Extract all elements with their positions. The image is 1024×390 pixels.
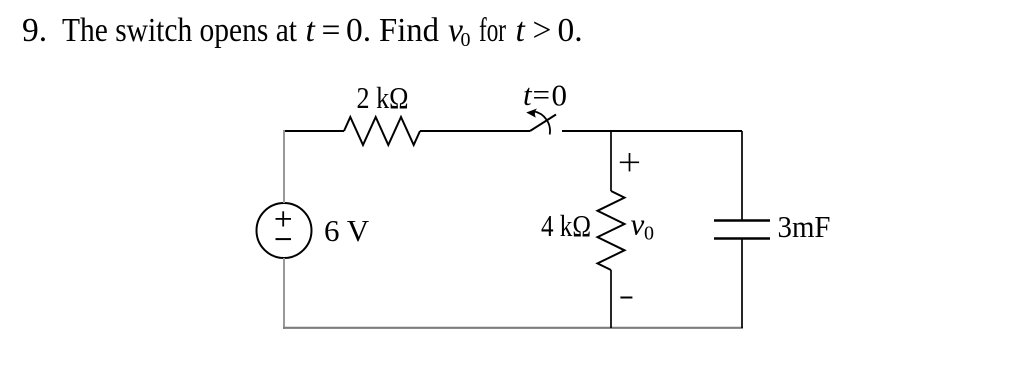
capacitor C (3 mF): bottom plate: [714, 237, 770, 239]
wire: right branch lower (capacitor to bottom wire): [741, 239, 743, 329]
wire: top-left segment (source top to resistor): [284, 130, 344, 132]
resistor 2 kΩ (horizontal zigzag): [344, 117, 420, 145]
svg-text:=: =: [533, 77, 550, 112]
label t=0: [523, 77, 567, 113]
svg-text:v: v: [631, 207, 645, 242]
voltage source V: minus mark: [276, 238, 292, 240]
wire: middle branch lower (4k resistor to bottom wire): [610, 270, 612, 328]
svg-text:4 kΩ: 4 kΩ: [541, 208, 591, 243]
switch SW (opens at t=0): blade: [530, 115, 556, 132]
switch SW: opening arc: [534, 111, 551, 134]
wire: left side lower (source to bottom wire): [283, 258, 285, 329]
svg-text:2 kΩ: 2 kΩ: [357, 80, 409, 115]
svg-text:0: 0: [644, 223, 654, 245]
wire: left side upper (top wire to source): [283, 130, 285, 203]
svg-text:>: >: [533, 12, 552, 49]
svg-text:for: for: [479, 12, 506, 49]
svg-text:t: t: [306, 12, 316, 49]
switch SW: arrowhead: [526, 109, 537, 118]
svg-text:=: =: [322, 12, 341, 49]
wire: middle branch upper (junction to 4k resistor): [610, 131, 612, 191]
problem statement text: [22, 12, 583, 51]
svg-text:6 V: 6 V: [324, 213, 370, 248]
voltage source V: plus mark: [276, 218, 292, 220]
svg-text:t: t: [523, 77, 533, 112]
resistor 4 kΩ (vertical zigzag): [598, 191, 625, 270]
svg-text:9.: 9.: [22, 12, 47, 49]
polarity plus mark (above v0): [620, 161, 639, 163]
svg-text:Find: Find: [379, 12, 439, 49]
svg-text:The switch opens at: The switch opens at: [62, 12, 298, 49]
svg-text:0.: 0.: [558, 12, 583, 49]
polarity minus mark (below v0): [620, 297, 632, 299]
svg-text:0: 0: [552, 78, 568, 113]
wire: bottom: [283, 327, 743, 329]
wire: switch to top-right corner: [562, 130, 742, 132]
svg-text:3mF: 3mF: [778, 209, 831, 244]
capacitor C (3 mF): top plate: [714, 219, 770, 221]
svg-text:0: 0: [461, 29, 471, 51]
voltage source V (6 V): circle: [257, 203, 312, 258]
wire: right branch upper (top wire to capacitor): [741, 131, 743, 221]
svg-text:0.: 0.: [346, 12, 371, 49]
svg-text:t: t: [516, 12, 526, 49]
wire: resistor to switch: [420, 130, 530, 132]
